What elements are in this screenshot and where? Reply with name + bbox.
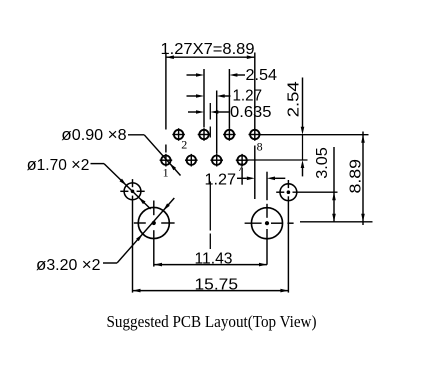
extension line pin4 up <box>203 69 205 128</box>
dim 1.27 top <box>187 95 197 97</box>
extension line pin6 up <box>228 69 230 128</box>
dim line 11.43 <box>154 264 267 266</box>
pin hole 6 (0.90mm) <box>223 128 236 141</box>
extension line pin1 up <box>165 53 167 130</box>
hole Ø3.20 right <box>251 208 282 239</box>
dim line 3.05 <box>333 147 335 222</box>
pin hole 3 (0.90mm) <box>185 154 198 167</box>
svg-text:1.27: 1.27 <box>233 88 263 105</box>
hole Ø3.20 left <box>138 207 169 238</box>
extension line pin7 down <box>241 168 243 185</box>
vertical centerline of Ø3.20 right (up to 1.27 dim, down to 11.43 dim) <box>266 172 268 201</box>
extension line pin8 up <box>254 53 256 130</box>
extension line big-hole row right <box>300 221 373 223</box>
svg-text:ø1.70 ×2: ø1.70 ×2 <box>27 155 90 174</box>
leader Ø3.20 to left big hole <box>103 262 117 264</box>
dim line 1.27X7=8.89 <box>166 56 255 58</box>
pin hole 4 (0.90mm) <box>198 128 211 141</box>
svg-text:1.27: 1.27 <box>205 171 237 188</box>
dim 0.635 <box>188 111 196 113</box>
extension line pin row 7 right <box>248 159 308 161</box>
pin hole 2 (0.90mm) <box>172 128 185 141</box>
svg-text:2: 2 <box>181 138 187 152</box>
svg-text:0.635: 0.635 <box>230 104 272 121</box>
svg-text:Suggested PCB Layout(Top View): Suggested PCB Layout(Top View) <box>107 312 317 331</box>
pin hole 7 (0.90mm) <box>236 154 249 167</box>
pin hole 8 (0.90mm) <box>249 128 262 141</box>
vertical centerline segments <box>209 103 211 120</box>
extension from Ø1.70 right toward 3.05 dim <box>293 191 338 193</box>
svg-text:1: 1 <box>163 166 169 180</box>
dim line vertical 2.54 <box>302 78 304 128</box>
extension from Ø1.70 right down to 15.75 dim <box>287 196 289 292</box>
pin hole 1 (0.90mm) <box>160 154 173 167</box>
svg-text:ø0.90 ×8: ø0.90 ×8 <box>61 125 126 144</box>
hole Ø1.70 right <box>280 184 297 201</box>
svg-text:1.27X7=8.89: 1.27X7=8.89 <box>161 41 255 58</box>
pin hole 5 (0.90mm) <box>210 154 223 167</box>
leader Ø0.90 to pin 1 <box>128 134 144 136</box>
svg-text:3.05: 3.05 <box>314 147 331 179</box>
extension line pin row 8 right <box>260 134 369 136</box>
dim line 15.75 <box>133 290 289 292</box>
svg-text:2.54: 2.54 <box>286 81 303 117</box>
svg-text:2.54: 2.54 <box>246 67 278 84</box>
leader Ø1.70 to left hole <box>91 163 105 165</box>
hole Ø1.70 left <box>124 183 141 200</box>
dim 2.54 top <box>187 74 197 76</box>
svg-text:8: 8 <box>257 140 263 154</box>
extension line pin8 down <box>254 146 256 200</box>
centerline / extension from Ø1.70 left down to 15.75 dim <box>132 196 134 293</box>
svg-text:ø3.20 ×2: ø3.20 ×2 <box>36 255 101 274</box>
dim line 8.89 <box>362 132 364 226</box>
extension line pin5 up <box>216 91 218 154</box>
extension from Ø3.20 left down to 11.43 dim <box>153 230 155 266</box>
svg-text:8.89: 8.89 <box>347 159 364 194</box>
